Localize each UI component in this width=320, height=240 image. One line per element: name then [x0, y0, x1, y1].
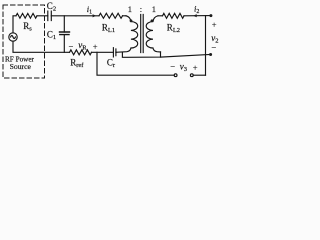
wire Rs to C2 [37, 15, 48, 17]
AC source sine [11, 36, 16, 39]
svg-text:Source: Source [10, 62, 32, 71]
wire RL1 to transformer primary [123, 15, 127, 17]
capacitor Cr [113, 48, 116, 57]
dashed box RF power source [3, 5, 45, 78]
svg-text:−: − [211, 43, 216, 53]
svg-text:+: + [193, 63, 198, 73]
capacitor C1 branch wire [63, 16, 65, 53]
svg-text:RL1: RL1 [102, 23, 115, 35]
svg-text:Rref: Rref [70, 57, 84, 69]
capacitor C1 plates [60, 32, 70, 35]
svg-text:−: − [170, 61, 175, 71]
capacitor C2 [48, 11, 52, 21]
wire secondary to RL2 [158, 15, 163, 17]
svg-text::: : [140, 4, 142, 14]
polarity dot primary [130, 19, 133, 22]
svg-text:C1: C1 [47, 29, 56, 41]
svg-text:Cr: Cr [107, 58, 116, 70]
wire v3 plus to v2 vertical [193, 74, 205, 76]
wire under transformer (U link) [122, 52, 160, 58]
terminal dot v2 minus [209, 53, 212, 56]
terminal dot v2 plus [209, 14, 212, 17]
polarity dot secondary [151, 19, 154, 22]
wire RL2 to v2 terminal (i2 arrow, junction x=205.5) [184, 15, 211, 17]
svg-text:−: − [69, 42, 74, 52]
transformer core lines [141, 15, 144, 53]
wire Cr to primary bottom [115, 51, 117, 53]
svg-text:C2: C2 [47, 1, 56, 13]
svg-text:i1: i1 [87, 4, 92, 16]
svg-text:RL2: RL2 [167, 23, 180, 35]
resistor RL1 [99, 13, 123, 18]
svg-text:Rs: Rs [23, 21, 32, 33]
svg-text:1: 1 [128, 4, 132, 14]
current arrow i1 [93, 14, 97, 17]
svg-text:v3: v3 [180, 62, 187, 74]
svg-text:1: 1 [152, 4, 156, 14]
resistor Rs [16, 13, 37, 18]
resistor Rref [70, 50, 92, 55]
wire C2 to RL1 (node A at x=64.3, i1 arrow) [51, 15, 99, 17]
svg-text:i2: i2 [194, 3, 199, 15]
transformer T1 primary winding [116, 16, 138, 53]
wire branch down to bottom rail [97, 52, 174, 75]
svg-text:+: + [212, 20, 217, 30]
AC source V1 circle [9, 33, 17, 41]
svg-text:vR: vR [78, 40, 87, 52]
resistor RL2 [163, 13, 185, 18]
transformer T1 secondary winding [146, 16, 160, 52]
wire transformer bottom to v2 minus terminal [161, 55, 211, 58]
wire source top [13, 16, 16, 33]
wire source bottom to middle rail [13, 41, 70, 52]
wire v2 vertical x=205.5 [205, 16, 207, 75]
current arrow i2 (pointing left) [193, 14, 197, 17]
svg-text:+: + [93, 41, 98, 51]
terminal circle v3 minus [174, 74, 177, 77]
wire Rref to Cr (branch at x=97) [92, 51, 114, 53]
terminal circle v3 plus [190, 74, 193, 77]
